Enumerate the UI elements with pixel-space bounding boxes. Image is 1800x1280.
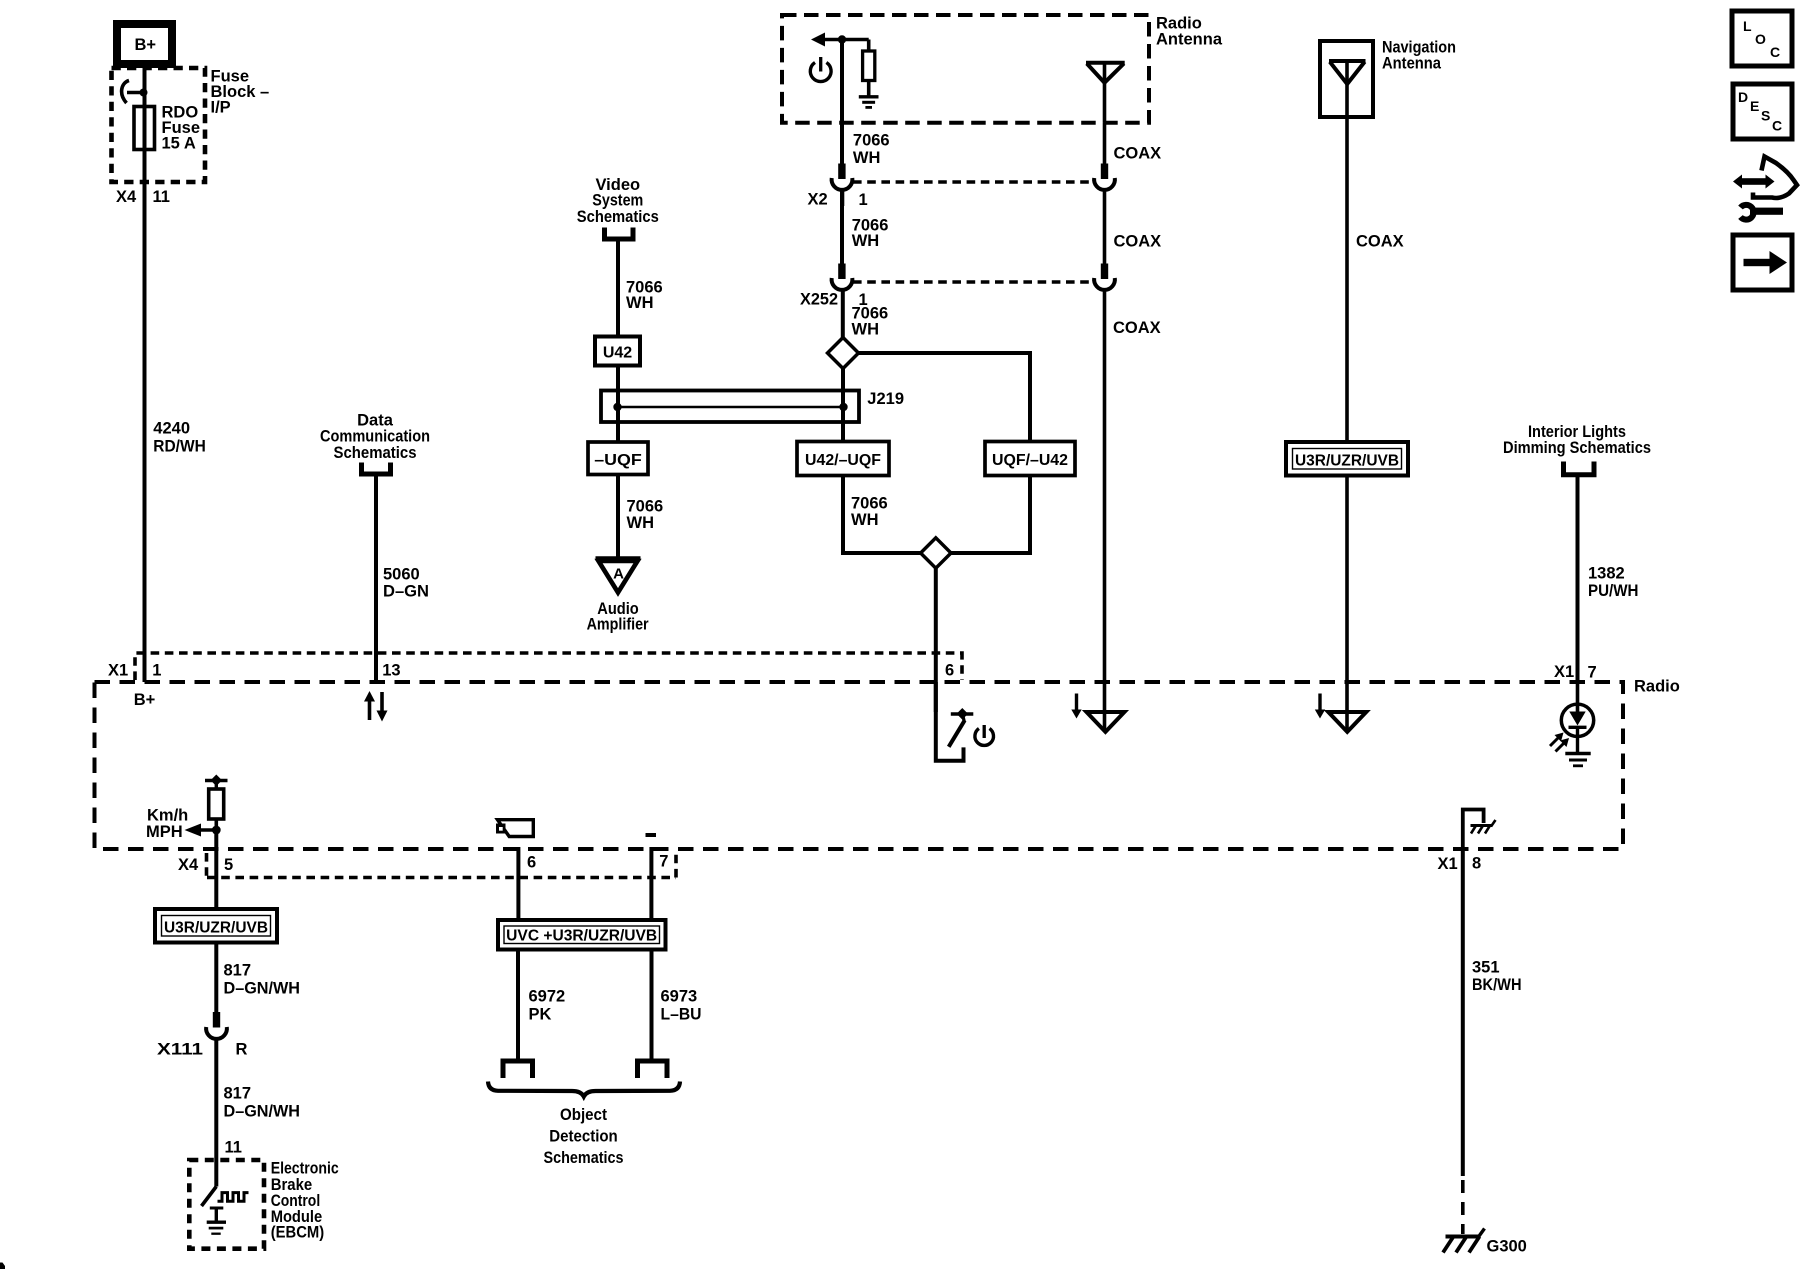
wire splice to U42/-UQF — [841, 369, 845, 443]
svg-text:1: 1 — [152, 662, 161, 680]
svg-text:PU/WH: PU/WH — [1588, 582, 1639, 600]
power symbol at switch — [975, 729, 994, 746]
svg-text:L–BU: L–BU — [661, 1006, 702, 1024]
svg-text:S: S — [1761, 108, 1770, 124]
svg-text:7: 7 — [659, 853, 668, 871]
dotted link row X2 — [853, 180, 1092, 184]
svg-text:Detection: Detection — [549, 1128, 618, 1146]
svg-text:U42/–UQF: U42/–UQF — [805, 452, 881, 469]
option box -UQF — [588, 442, 648, 475]
wire 7066 WH X252 to splice — [841, 291, 845, 339]
wire below UQF/-U42 — [951, 476, 1030, 554]
svg-text:U3R/UZR/UVB: U3R/UZR/UVB — [1295, 453, 1399, 470]
antenna symbol in radio antenna box — [1086, 61, 1125, 65]
inline connector X252 pin 1 — [838, 264, 845, 280]
svg-text:8: 8 — [1472, 855, 1481, 873]
fuse block dashed box Fuse Block I/P — [112, 68, 206, 182]
svg-text:D: D — [1738, 89, 1748, 105]
svg-text:D–GN/WH: D–GN/WH — [224, 1103, 301, 1121]
antenna power feed arrow — [811, 33, 825, 47]
svg-text:B+: B+ — [134, 691, 156, 709]
nav antenna symbol — [1329, 59, 1366, 63]
option box U3R/UZR/UVB left — [155, 909, 277, 943]
desc icon — [1733, 84, 1792, 139]
fuse hook element — [122, 81, 129, 104]
svg-text:15 A: 15 A — [162, 135, 196, 153]
wire splice to UQF/-U42 — [859, 353, 1031, 442]
svg-text:7066: 7066 — [851, 495, 888, 513]
wire radio pin 6 bottom — [516, 847, 520, 920]
splice diamond upper — [828, 338, 859, 369]
wire 6973 L-BU — [650, 950, 654, 1061]
fuse RDO 15A rectangle — [134, 107, 155, 150]
svg-text:R: R — [236, 1041, 248, 1059]
svg-text:13: 13 — [382, 662, 400, 680]
curly brace object detection — [488, 1082, 680, 1097]
svg-text:4240: 4240 — [153, 420, 190, 438]
svg-text:X1: X1 — [108, 662, 128, 680]
wire 1382 PU/WH — [1576, 477, 1580, 682]
svg-text:X252: X252 — [800, 291, 838, 309]
receive arrow nav antenna — [1318, 694, 1321, 711]
LED ground — [1565, 752, 1590, 756]
svg-text:(EBCM): (EBCM) — [271, 1224, 325, 1242]
option box UVC +U3R/UZR/UVB — [498, 920, 666, 950]
antenna feed resistor — [867, 40, 871, 52]
svg-text:WH: WH — [626, 294, 654, 312]
svg-text:O: O — [1755, 31, 1766, 47]
wire 6972 PK — [516, 950, 520, 1061]
svg-text:MPH: MPH — [146, 823, 183, 841]
svg-text:UVC +U3R/UZR/UVB: UVC +U3R/UZR/UVB — [506, 928, 657, 945]
wire radio pin 7 bottom — [649, 847, 653, 920]
coax inline connector lower — [1101, 264, 1108, 280]
splice pack J219 — [601, 391, 859, 423]
svg-text:PK: PK — [529, 1006, 552, 1024]
svg-text:E: E — [1750, 98, 1759, 114]
wire 7066 WH below U42/-UQF — [843, 476, 921, 554]
radio antenna dashed box — [782, 15, 1149, 123]
svg-text:Communication: Communication — [320, 427, 430, 445]
svg-text:C: C — [1770, 44, 1780, 60]
wire 7066 WH antenna to X2 — [840, 40, 844, 165]
svg-text:6973: 6973 — [661, 988, 698, 1006]
svg-text:WH: WH — [853, 149, 881, 167]
radio dashed box — [95, 682, 1624, 849]
serial data arrows at pin 13 — [364, 691, 375, 702]
LED illumination arrows — [1550, 737, 1559, 746]
coax wire to radio — [1103, 291, 1107, 683]
repair info icon — [1753, 157, 1797, 199]
audio amplifier triangle A — [596, 556, 641, 560]
svg-text:I/P: I/P — [211, 99, 231, 117]
svg-text:WH: WH — [851, 511, 879, 529]
wire 7066 WH X2 to X252 — [840, 191, 844, 264]
wire 7066 WH video feed — [616, 241, 620, 442]
inline connector X2 pin 1 — [838, 164, 845, 180]
antenna input triangle radio — [1103, 682, 1107, 731]
svg-text:System: System — [592, 192, 643, 210]
wire 351 BK/WH — [1461, 851, 1465, 1176]
svg-text:X2: X2 — [808, 191, 828, 209]
svg-text:WH: WH — [852, 321, 880, 339]
speed signal gauge symbol Km/h MPH — [205, 779, 228, 782]
wire gauge to pin X4-5 — [214, 830, 218, 909]
minus sign at pin 7 — [646, 833, 657, 837]
nav coax wire to radio — [1345, 476, 1349, 683]
svg-text:5060: 5060 — [383, 566, 420, 584]
svg-text:D–GN/WH: D–GN/WH — [224, 980, 301, 998]
wire 4240 RD/WH from B+ to radio pin X1-1 — [143, 64, 147, 682]
svg-text:7: 7 — [1588, 664, 1597, 682]
receive arrow radio antenna — [1075, 694, 1078, 711]
svg-text:B+: B+ — [135, 36, 157, 54]
wire 5060 D-GN — [374, 477, 378, 683]
next page arrow icon — [1733, 235, 1792, 290]
svg-text:J219: J219 — [867, 390, 904, 408]
dashed wire to G300 — [1461, 1180, 1465, 1234]
EBCM switch — [214, 1160, 218, 1187]
svg-text:Antenna: Antenna — [1382, 55, 1442, 73]
splice diamond lower — [921, 538, 951, 568]
camera symbol at pin 6 — [498, 820, 534, 837]
svg-text:Schematics: Schematics — [334, 444, 417, 462]
svg-text:COAX: COAX — [1114, 232, 1162, 250]
option box U3R/UZR/UVB nav — [1286, 442, 1408, 476]
svg-text:WH: WH — [627, 514, 655, 532]
svg-text:817: 817 — [224, 1085, 252, 1103]
chassis ground G300 — [1446, 1235, 1480, 1239]
nav coax wire — [1345, 61, 1349, 442]
inline connector X111 R — [213, 1012, 220, 1028]
svg-text:BK/WH: BK/WH — [1472, 976, 1522, 994]
power feed B+ box — [117, 24, 172, 64]
wire splice to radio pin 6 — [934, 568, 938, 712]
EBCM switch contact and ground — [210, 1207, 224, 1210]
EBCM PWM signal symbol — [218, 1193, 249, 1202]
svg-text:Antenna: Antenna — [1156, 31, 1223, 49]
svg-text:C: C — [1772, 118, 1782, 134]
svg-text:A: A — [613, 566, 624, 583]
terminal bracket left — [503, 1061, 533, 1078]
EBCM dashed box — [189, 1160, 264, 1249]
svg-text:WH: WH — [852, 232, 880, 250]
option box UQF/-U42 — [985, 442, 1075, 476]
svg-text:U42: U42 — [603, 345, 632, 362]
terminal bracket right — [638, 1061, 668, 1078]
svg-text:COAX: COAX — [1114, 145, 1162, 163]
svg-text:X1: X1 — [1438, 855, 1458, 873]
chassis ground at pin X1-8 — [1463, 810, 1484, 852]
svg-text:COAX: COAX — [1113, 319, 1161, 337]
antenna input triangle nav — [1345, 682, 1349, 731]
svg-text:11: 11 — [153, 188, 170, 206]
svg-text:351: 351 — [1472, 959, 1500, 977]
svg-text:RD/WH: RD/WH — [153, 438, 206, 456]
svg-text:L: L — [1743, 18, 1752, 34]
coax inline connector top — [1101, 164, 1108, 180]
navigation antenna box — [1320, 41, 1373, 117]
svg-text:817: 817 — [224, 962, 252, 980]
wire 7066 WH to audio amplifier — [616, 475, 620, 559]
power switch symbol at pin 6 — [936, 682, 964, 761]
svg-text:Schematics: Schematics — [544, 1149, 624, 1167]
power symbol in antenna box — [810, 63, 831, 82]
svg-text:D–GN: D–GN — [383, 583, 429, 601]
bottom pin row X4 dotted — [207, 853, 677, 878]
svg-text:6972: 6972 — [529, 988, 566, 1006]
svg-text:U3R/UZR/UVB: U3R/UZR/UVB — [164, 920, 268, 937]
svg-text:Km/h: Km/h — [147, 807, 188, 825]
svg-text:1: 1 — [859, 191, 868, 209]
svg-text:6: 6 — [945, 662, 954, 680]
svg-text:X4: X4 — [116, 188, 137, 206]
svg-text:Amplifier: Amplifier — [587, 615, 649, 633]
svg-text:11: 11 — [225, 1139, 242, 1157]
illumination LED at pin X1-7 — [1576, 682, 1580, 712]
svg-text:Radio: Radio — [1634, 678, 1680, 696]
svg-text:X111: X111 — [157, 1041, 203, 1059]
svg-text:Object: Object — [560, 1106, 607, 1124]
svg-text:UQF/–U42: UQF/–U42 — [992, 452, 1068, 469]
svg-text:–UQF: –UQF — [594, 452, 642, 469]
svg-text:Electronic: Electronic — [271, 1160, 339, 1178]
svg-text:6: 6 — [527, 854, 536, 872]
svg-text:X4: X4 — [178, 856, 199, 874]
dotted link row X252 — [853, 280, 1092, 284]
svg-text:5: 5 — [224, 856, 233, 874]
svg-text:COAX: COAX — [1356, 232, 1404, 250]
option box U42 — [595, 337, 640, 366]
svg-text:X1: X1 — [1554, 663, 1574, 681]
repair icon wrench — [1741, 205, 1754, 220]
loc icon — [1732, 11, 1792, 66]
svg-text:G300: G300 — [1487, 1238, 1527, 1256]
svg-text:Schematics: Schematics — [577, 208, 659, 226]
svg-text:7066: 7066 — [853, 132, 890, 150]
wire 817 D-GN/WH upper — [214, 943, 218, 1013]
page artifact mark — [0, 1263, 5, 1270]
pin row X1 dotted — [135, 653, 962, 680]
svg-text:Dimming Schematics: Dimming Schematics — [1503, 439, 1651, 457]
coax wire from antenna — [1103, 123, 1107, 164]
wire 817 D-GN/WH lower — [214, 1040, 218, 1161]
coax wire middle — [1103, 191, 1107, 264]
option box U42/-UQF — [797, 442, 889, 476]
svg-text:7066: 7066 — [627, 498, 664, 516]
svg-text:1382: 1382 — [1588, 565, 1625, 583]
ground in antenna box — [859, 95, 879, 98]
